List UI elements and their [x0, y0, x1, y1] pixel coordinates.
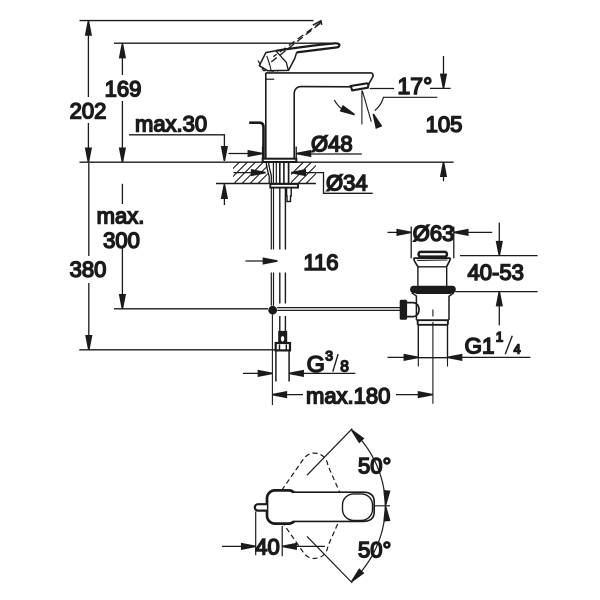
angle arc right with arrow and leader	[375, 97, 438, 110]
supply pipes inside shank	[273, 162, 276, 184]
svg-text:380: 380	[70, 257, 107, 282]
drain body	[415, 296, 417, 320]
dim tailpipe arrows	[388, 356, 406, 358]
dim 169 vertical line	[121, 44, 123, 75]
faucet handle dashed raised position lower line	[268, 24, 320, 65]
ball joint of pull rod	[268, 306, 277, 315]
dim 105 vertical	[443, 56, 445, 75]
dim 116 arrow	[246, 260, 265, 262]
svg-text:max.30: max.30	[135, 112, 207, 137]
Ø48 extension ticks	[262, 147, 264, 159]
arc arrows at centerline	[383, 491, 390, 505]
handle inner curve	[267, 56, 271, 70]
dim max.30 arrow to deck top	[222, 147, 227, 161]
svg-text:8: 8	[340, 359, 349, 376]
knob arm	[407, 303, 419, 317]
handle base	[259, 51, 296, 71]
swing arc upper	[352, 430, 386, 506]
svg-text:50°: 50°	[358, 538, 391, 563]
svg-text:40: 40	[255, 534, 279, 559]
water direction slanted line (17 deg)	[362, 91, 371, 122]
water direction vertical reference	[361, 90, 363, 124]
dashed rotated handle base outline	[258, 61, 278, 72]
dim Ø34 arrows	[234, 172, 252, 174]
svg-text:300: 300	[103, 228, 140, 253]
shank right edge	[288, 162, 290, 184]
dashed lever rotated up 50deg	[282, 453, 340, 491]
bent hose in shank	[266, 162, 271, 184]
top reference line (handle max height)	[80, 20, 314, 22]
swing radial line +50	[307, 429, 352, 476]
svg-text:G1: G1	[465, 334, 495, 359]
svg-text:50°: 50°	[358, 454, 391, 479]
drain upper body	[418, 267, 447, 287]
aerator level reference line	[370, 88, 394, 90]
drain plug cap	[419, 252, 447, 257]
swing radial line -50	[307, 536, 352, 583]
svg-text:105: 105	[426, 112, 463, 137]
svg-text:max.180: max.180	[306, 384, 390, 409]
svg-text:Ø48: Ø48	[311, 131, 353, 156]
drain plug neck	[414, 258, 451, 267]
arc end arrow up	[350, 428, 363, 442]
lever end cap inner line	[343, 494, 373, 521]
svg-text:17°: 17°	[398, 73, 433, 99]
pull rod below deck	[271, 188, 273, 306]
G3/8 threaded pipe	[275, 350, 277, 381]
label G1 1/4 underlined	[448, 356, 531, 358]
faucet body outline	[266, 73, 373, 158]
hose connection nut	[276, 343, 290, 350]
dim Ø63	[388, 231, 398, 233]
svg-text:3: 3	[325, 348, 333, 364]
vertical reference line from ball joint	[271, 315, 273, 405]
svg-text:40-53: 40-53	[468, 260, 524, 285]
dim G3/8 arrows	[243, 372, 260, 374]
Ø63 extension ticks	[410, 227, 412, 259]
dashed raised handle tip (solid)	[313, 21, 322, 25]
drain seal gasket	[411, 286, 456, 292]
mounting washer under deck	[270, 184, 298, 188]
svg-text:Ø34: Ø34	[326, 171, 368, 196]
base plate (escutcheon)	[263, 159, 297, 162]
dim max.300 line	[121, 184, 123, 204]
dim max.30 lower arrow below deck	[222, 184, 227, 198]
drain coupling nut	[416, 320, 449, 325]
dim 40 extension lines	[255, 512, 257, 556]
temperature knob (top view)	[255, 504, 267, 510]
dim 202 vertical line	[87, 21, 89, 97]
svg-text:4: 4	[514, 343, 521, 357]
handle inner face line	[276, 51, 289, 71]
drain body shoulder	[412, 293, 454, 296]
svg-text:Ø63: Ø63	[413, 221, 455, 246]
dim 40-53	[460, 255, 538, 257]
body top rear edge under handle	[266, 78, 274, 80]
swing arc lower	[352, 506, 386, 582]
supply hose fitting	[279, 332, 286, 343]
deck top line	[80, 161, 454, 163]
dashed lever rotated down 50deg	[282, 520, 340, 558]
dim Ø48 arrows	[229, 153, 249, 155]
drain centerline	[432, 310, 434, 404]
deck bottom line	[216, 183, 316, 185]
faucet handle dashed raised position upper line	[273, 22, 321, 57]
svg-text:1: 1	[496, 330, 504, 345]
svg-text:116: 116	[303, 250, 338, 275]
pull rod (above deck)	[249, 123, 263, 159]
dim 380 line	[88, 163, 90, 256]
drain tailpipe G1 1/4	[418, 325, 447, 358]
dim 40 arrows	[222, 545, 242, 547]
pull rod knob (knurled)	[400, 300, 406, 319]
svg-text:G: G	[307, 351, 325, 377]
deck hatching right	[282, 162, 327, 183]
faucet handle lever (front view)	[276, 43, 340, 52]
centerline tick	[374, 505, 391, 507]
angle arc left with arrow	[334, 100, 353, 114]
horizontal linkage rod to drain	[277, 307, 400, 309]
reference line at lever top (169)	[114, 42, 336, 44]
handle top view lever (solid, masks dashes)	[293, 492, 374, 521]
svg-text:max.: max.	[97, 204, 145, 229]
supply tube below deck	[280, 188, 286, 332]
dim max.180	[272, 392, 286, 397]
deck hatching left	[218, 162, 279, 183]
aerator (spout outlet)	[351, 83, 369, 90]
arc end arrow down	[350, 569, 363, 583]
svg-text:202: 202	[70, 99, 107, 124]
mounting stud and nut	[287, 188, 292, 202]
svg-text:169: 169	[105, 76, 142, 101]
handle base (bold)	[267, 490, 297, 523]
